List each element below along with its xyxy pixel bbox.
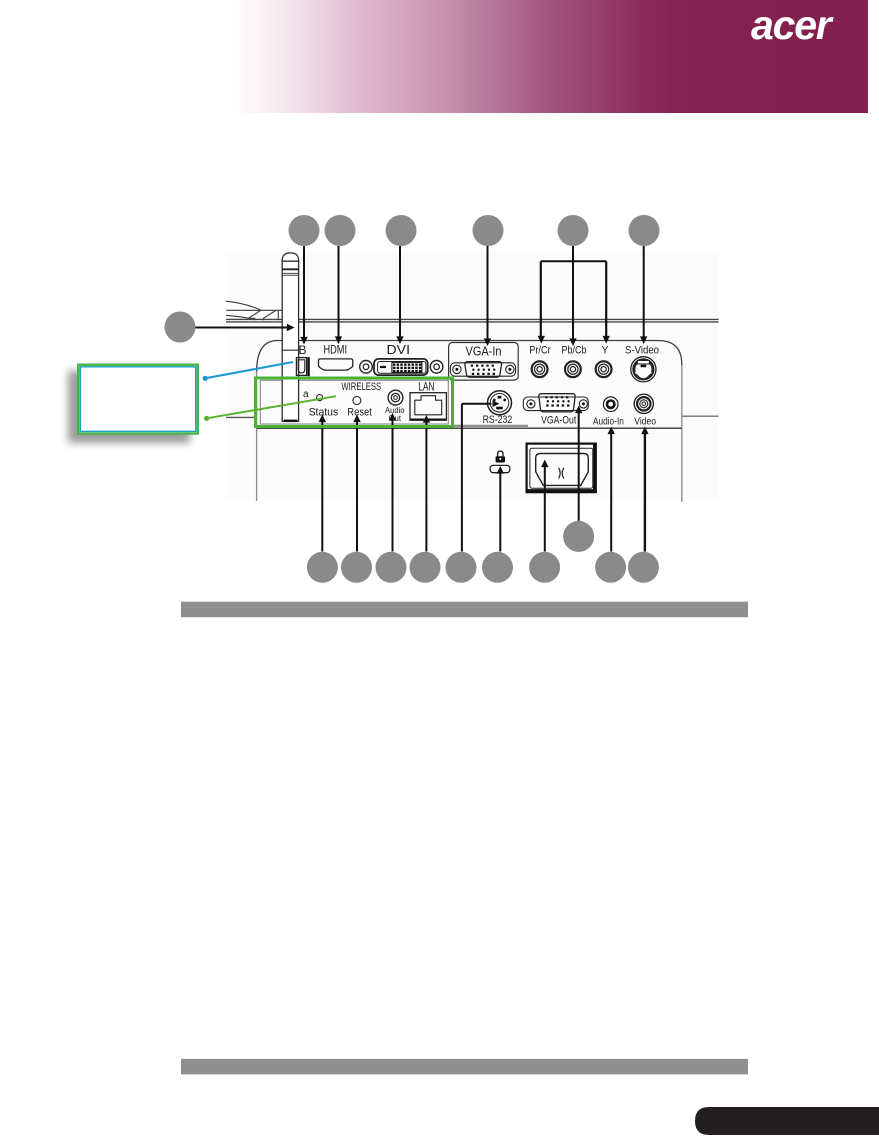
- svg-text:VGA-Out: VGA-Out: [541, 415, 576, 427]
- svg-text:VGA-In: VGA-In: [466, 343, 502, 358]
- svg-text:Reset: Reset: [347, 406, 372, 418]
- svg-text:WIRELESS: WIRELESS: [341, 381, 381, 393]
- svg-text:B: B: [299, 343, 307, 357]
- svg-text:S-Video: S-Video: [625, 345, 659, 357]
- svg-text:DVI: DVI: [387, 343, 411, 357]
- svg-text:Video: Video: [634, 417, 656, 428]
- svg-text:HDMI: HDMI: [324, 345, 348, 357]
- svg-text:a: a: [303, 389, 309, 400]
- svg-text:RS-232: RS-232: [483, 414, 513, 426]
- svg-text:Pr/Cr: Pr/Cr: [529, 345, 551, 357]
- svg-text:Y: Y: [602, 345, 610, 357]
- svg-text:Status: Status: [309, 406, 339, 418]
- svg-text:Audio-In: Audio-In: [593, 417, 624, 428]
- svg-text:Pb/Cb: Pb/Cb: [562, 345, 587, 357]
- svg-text:LAN: LAN: [418, 381, 434, 393]
